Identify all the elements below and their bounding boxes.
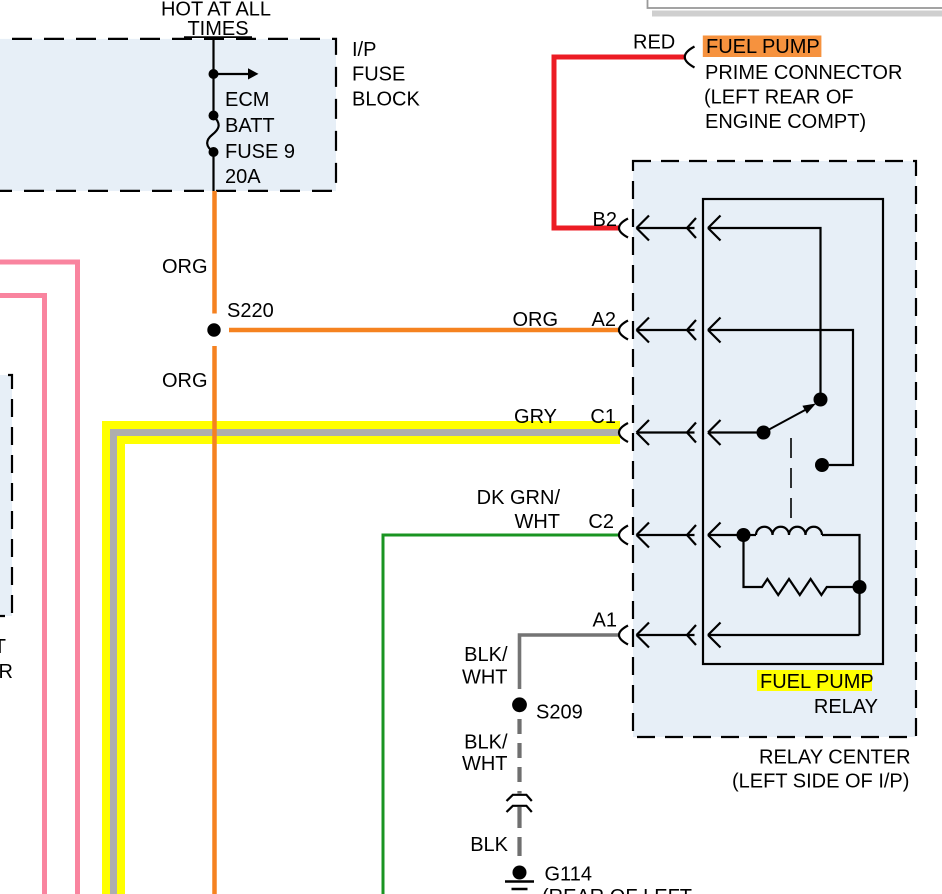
svg-text:FUEL PUMP: FUEL PUMP <box>760 671 874 693</box>
svg-text:R: R <box>0 661 13 683</box>
svg-text:ORG: ORG <box>162 256 208 278</box>
wire GRY gray core <box>114 433 621 894</box>
svg-text:GRY: GRY <box>514 406 557 428</box>
svg-text:C2: C2 <box>588 511 614 533</box>
svg-text:ORG: ORG <box>162 370 208 392</box>
junction dot <box>209 69 219 79</box>
top-right box (partial, cut at top) <box>648 0 942 8</box>
svg-text:PRIME CONNECTOR: PRIME CONNECTOR <box>705 62 902 84</box>
svg-text:FUSE 9: FUSE 9 <box>225 141 295 163</box>
svg-text:I/P: I/P <box>352 39 376 61</box>
wire BLK/WHT dashed below S209 <box>517 719 521 794</box>
I/P fuse block box <box>0 39 336 191</box>
svg-text:WHT: WHT <box>514 511 560 533</box>
arrow to other circuits <box>214 73 249 75</box>
svg-text:C1: C1 <box>590 406 616 428</box>
wire pink 1 <box>0 262 78 894</box>
inline connector lower half <box>507 806 532 812</box>
svg-text:BLK: BLK <box>470 834 508 856</box>
wire RED <box>554 57 686 228</box>
terminal C1 <box>619 420 764 445</box>
svg-text:BLK/: BLK/ <box>464 732 508 754</box>
svg-text:B2: B2 <box>593 209 617 231</box>
svg-text:BLK/: BLK/ <box>464 644 508 666</box>
switch blade <box>764 410 807 433</box>
terminal C2 <box>619 523 744 548</box>
svg-text:RELAY: RELAY <box>814 696 878 718</box>
svg-text:BLOCK: BLOCK <box>352 89 420 111</box>
wire BLK/WHT from A1 <box>520 635 621 689</box>
svg-text:FUSE: FUSE <box>352 64 405 86</box>
svg-text:ORG: ORG <box>512 309 558 331</box>
svg-text:RED: RED <box>633 32 675 54</box>
svg-text:A2: A2 <box>592 309 616 331</box>
fuse block feed wire <box>212 39 214 112</box>
wire ORG branch to A2 <box>229 328 620 333</box>
svg-text:20A: 20A <box>225 166 261 188</box>
wire DK GRN/WHT <box>383 535 620 894</box>
shadow of top-right box <box>652 11 942 17</box>
svg-text:WHT: WHT <box>462 667 508 689</box>
svg-text:DK GRN/: DK GRN/ <box>477 487 561 509</box>
terminal B2 <box>619 216 821 395</box>
svg-text:(LEFT REAR OF: (LEFT REAR OF <box>704 87 854 109</box>
inline connector upper half <box>507 795 532 801</box>
svg-text:RELAY CENTER: RELAY CENTER <box>759 747 911 769</box>
fuse ECM BATT FUSE 9 <box>209 111 219 121</box>
relay switch contacts <box>814 393 828 407</box>
relay resistor <box>744 535 854 595</box>
dashed link coil to switch <box>790 438 792 519</box>
splice S209 dot <box>512 697 527 712</box>
svg-text:S220: S220 <box>227 300 274 322</box>
FUEL PUMP RELAY label <box>757 670 872 691</box>
prime connector arc <box>685 47 695 68</box>
svg-text:BATT: BATT <box>225 115 275 137</box>
svg-text:FUEL PUMP: FUEL PUMP <box>706 36 820 58</box>
svg-text:S209: S209 <box>536 702 583 724</box>
splice S220 dot <box>207 323 220 336</box>
svg-text:(LEFT SIDE OF I/P): (LEFT SIDE OF I/P) <box>732 771 909 793</box>
ground G114 dot <box>513 866 527 880</box>
svg-text:ECM: ECM <box>225 89 269 111</box>
svg-text:ENGINE COMPT): ENGINE COMPT) <box>705 111 866 133</box>
wire ORG vertical <box>212 191 217 894</box>
fuel pump relay inner box <box>703 199 883 664</box>
svg-text:(REAR OF LEFT: (REAR OF LEFT <box>542 886 692 894</box>
switch common dot <box>757 426 771 440</box>
wire BLK dashed to ground <box>517 807 521 856</box>
FUEL PUMP orange highlight <box>703 36 822 58</box>
terminal A2 <box>619 318 853 466</box>
left partial dashed box <box>0 375 12 616</box>
svg-text:A1: A1 <box>593 610 617 632</box>
wire pink 2 <box>0 296 45 894</box>
svg-text:G114: G114 <box>545 864 592 886</box>
svg-text:T: T <box>0 636 6 658</box>
terminal A1 <box>619 623 860 648</box>
ground symbol bars <box>505 882 534 890</box>
relay coil <box>737 528 751 542</box>
wire GRY yellow highlight <box>114 433 621 894</box>
svg-text:WHT: WHT <box>462 753 508 775</box>
relay center dashed box <box>633 161 916 737</box>
